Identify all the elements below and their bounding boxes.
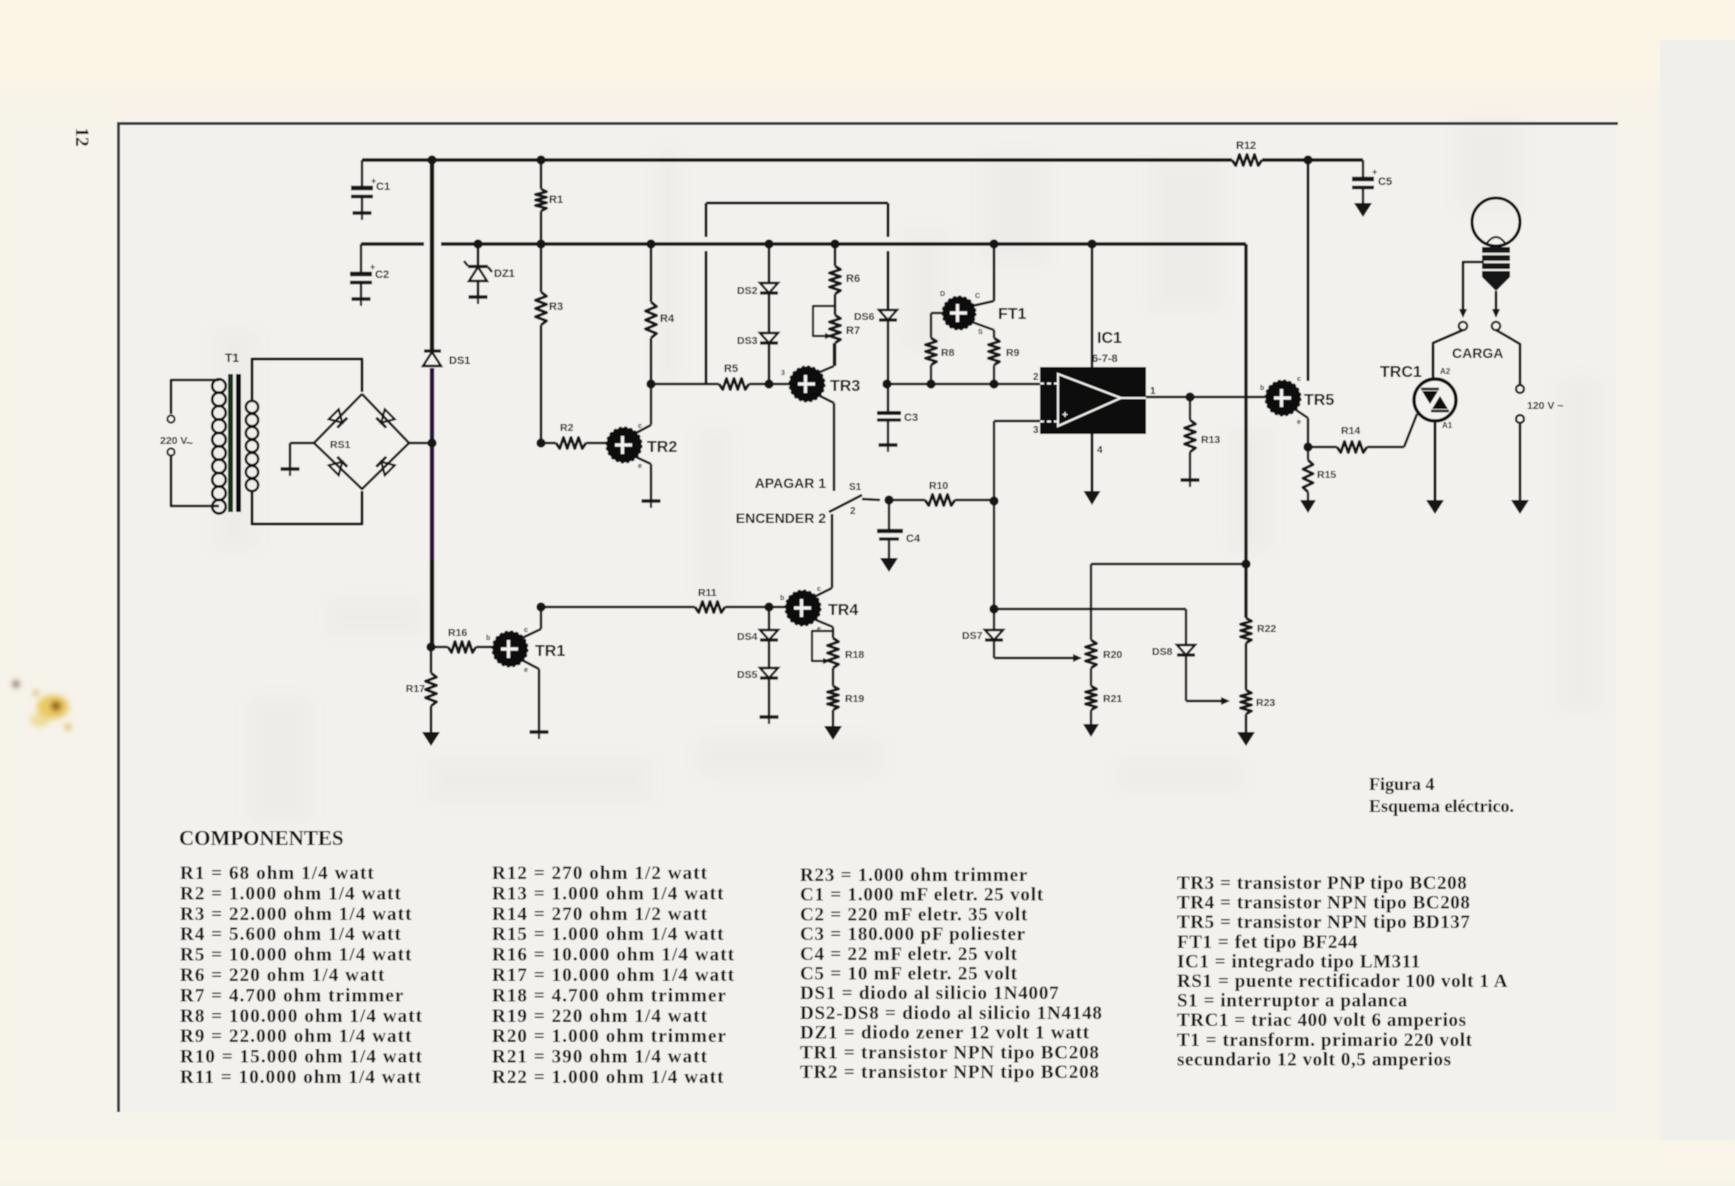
svg-text:3: 3 bbox=[781, 370, 785, 377]
node R3 TR2row bbox=[536, 438, 545, 447]
wire rail2 down bbox=[1244, 244, 1247, 618]
svg-text:R8 = 100.000 ohm 1/4 watt: R8 = 100.000 ohm 1/4 watt bbox=[180, 1006, 423, 1027]
svg-text:ENCENDER 2: ENCENDER 2 bbox=[736, 510, 826, 526]
resistor R17 bbox=[406, 647, 437, 732]
wire TR2 collector bbox=[636, 385, 651, 433]
wire IC1 vplus bbox=[1091, 244, 1094, 368]
svg-text:R15: R15 bbox=[1317, 469, 1336, 481]
wire TR4 collector bbox=[816, 514, 832, 596]
svg-text:R5 = 10.000 ohm 1/4 watt: R5 = 10.000 ohm 1/4 watt bbox=[180, 945, 413, 966]
wire bridge out bbox=[409, 442, 432, 445]
wire DS7 wiper bbox=[994, 654, 1082, 662]
svg-text:R11 = 10.000 ohm 1/4 watt: R11 = 10.000 ohm 1/4 watt bbox=[180, 1067, 422, 1088]
svg-text:R6: R6 bbox=[846, 273, 860, 285]
wire TRC1 mt1 bbox=[1434, 421, 1437, 500]
wire second rail bbox=[361, 242, 1246, 245]
svg-text:R1: R1 bbox=[549, 194, 563, 206]
wire TR2 emitter bbox=[636, 457, 651, 500]
transistor TR4 bbox=[780, 586, 858, 633]
svg-text:S: S bbox=[978, 329, 983, 336]
resistor R5 bbox=[719, 363, 749, 390]
svg-text:R11: R11 bbox=[698, 587, 717, 599]
diode DS7 bbox=[962, 609, 1003, 658]
node row DS3 bbox=[764, 379, 773, 388]
node top rail TR5 bbox=[1303, 155, 1312, 164]
wire row right bbox=[886, 383, 1040, 386]
svg-text:R14: R14 bbox=[1341, 425, 1360, 437]
svg-text:R9 = 22.000 ohm 1/4 watt: R9 = 22.000 ohm 1/4 watt bbox=[180, 1026, 413, 1047]
lamp CARGA bbox=[1452, 198, 1520, 361]
node row R9 bbox=[989, 379, 998, 388]
svg-text:R18 = 4.700 ohm trimmer: R18 = 4.700 ohm trimmer bbox=[492, 985, 727, 1006]
ground R21 bbox=[1083, 724, 1099, 737]
svg-text:TR2: TR2 bbox=[647, 439, 677, 456]
svg-text:c: c bbox=[817, 586, 821, 593]
node S1 pole bbox=[884, 495, 893, 504]
svg-text:R7: R7 bbox=[846, 325, 860, 337]
wire R7 to TR3 bbox=[834, 343, 837, 366]
transistor TR2 bbox=[607, 423, 678, 470]
svg-text:R4 = 5.600 ohm 1/4 watt: R4 = 5.600 ohm 1/4 watt bbox=[180, 924, 402, 945]
svg-text:DS7: DS7 bbox=[962, 630, 983, 642]
ground TR2 emitter bbox=[642, 501, 661, 508]
svg-text:S1 = interruptor a palanca: S1 = interruptor a palanca bbox=[1177, 991, 1408, 1012]
node rail2 FT1 bbox=[989, 239, 998, 248]
node rail2 DZ1 bbox=[473, 239, 482, 248]
svg-text:TRC1: TRC1 bbox=[1380, 364, 1422, 381]
svg-text:DS4: DS4 bbox=[737, 631, 758, 643]
svg-text:R2: R2 bbox=[560, 422, 574, 434]
svg-text:DS1: DS1 bbox=[449, 355, 470, 367]
ground bridge bbox=[281, 469, 300, 476]
svg-text:e: e bbox=[638, 463, 642, 470]
wire lamp to mains bbox=[1496, 330, 1564, 500]
trimmer R7 bbox=[813, 306, 860, 343]
svg-text:R22: R22 bbox=[1257, 623, 1276, 635]
svg-text:TR5 = transistor NPN tipo BD: TR5 = transistor NPN tipo BD137 bbox=[1177, 912, 1471, 933]
resistor R2 bbox=[541, 422, 607, 449]
node bus bridge bbox=[427, 438, 436, 447]
ground IC1 pin4 bbox=[1084, 434, 1101, 505]
transistor TR1 bbox=[486, 627, 565, 674]
svg-text:DS6: DS6 bbox=[854, 311, 875, 323]
wire TR1 emitter bbox=[522, 660, 539, 731]
svg-text:R15 = 1.000 ohm 1/4 watt: R15 = 1.000 ohm 1/4 watt bbox=[492, 924, 725, 945]
svg-text:R3 = 22.000 ohm 1/4 watt: R3 = 22.000 ohm 1/4 watt bbox=[180, 904, 413, 925]
wire T1 secondary top bbox=[252, 359, 362, 401]
transistor TR3 bbox=[781, 367, 860, 402]
wire TRC1 gate bbox=[1404, 414, 1417, 447]
node rail2 R4 bbox=[646, 239, 655, 248]
diode DS8 bbox=[1152, 645, 1195, 701]
diode DS3 bbox=[737, 333, 778, 384]
ground R23 bbox=[1237, 732, 1255, 746]
svg-text:FT1 = fet tipo BF244: FT1 = fet tipo BF244 bbox=[1177, 932, 1358, 953]
svg-text:CARGA: CARGA bbox=[1452, 345, 1503, 361]
svg-text:C3 = 180.000 pF poliester: C3 = 180.000 pF poliester bbox=[800, 924, 1026, 945]
svg-text:DS2: DS2 bbox=[737, 285, 758, 297]
svg-text:R5: R5 bbox=[724, 363, 738, 375]
label 220V bbox=[160, 435, 193, 450]
resistor R15 bbox=[1303, 447, 1336, 500]
diode DS1 bbox=[423, 351, 470, 367]
svg-text:IC1: IC1 bbox=[1097, 330, 1122, 347]
svg-text:C2: C2 bbox=[375, 269, 389, 281]
svg-text:A1: A1 bbox=[1442, 421, 1453, 430]
svg-text:R17: R17 bbox=[406, 683, 425, 695]
wire y564 bbox=[1091, 564, 1246, 640]
svg-text:TR2 = transistor NPN tipo BC: TR2 = transistor NPN tipo BC208 bbox=[800, 1062, 1100, 1083]
svg-text:APAGAR 1: APAGAR 1 bbox=[755, 475, 827, 491]
svg-text:R23 = 1.000 ohm trimmer: R23 = 1.000 ohm trimmer bbox=[800, 865, 1028, 886]
svg-text:R16: R16 bbox=[448, 627, 467, 639]
node rail2 IC1 bbox=[1087, 239, 1096, 248]
svg-text:R23: R23 bbox=[1256, 697, 1275, 709]
svg-text:R6 = 220 ohm 1/4 watt: R6 = 220 ohm 1/4 watt bbox=[180, 965, 385, 986]
node rail2 DS2 bbox=[764, 239, 773, 248]
wire bridge ground bbox=[290, 443, 314, 468]
wire lamp left bbox=[1459, 262, 1484, 330]
wire DS8 row bbox=[994, 609, 1186, 645]
svg-text:R13: R13 bbox=[1201, 434, 1220, 446]
svg-text:R20: R20 bbox=[1103, 649, 1122, 661]
svg-text:DZ1: DZ1 bbox=[494, 268, 515, 280]
svg-text:T1 = transform. primario 220: T1 = transform. primario 220 volt bbox=[1177, 1030, 1473, 1051]
decorative bleedthrough (unlabeled) bbox=[215, 120, 1600, 820]
svg-text:c: c bbox=[1297, 376, 1301, 383]
svg-text:R10: R10 bbox=[929, 480, 948, 492]
wire IC1 output bbox=[1146, 396, 1265, 398]
svg-text:R21 = 390 ohm 1/4 watt: R21 = 390 ohm 1/4 watt bbox=[492, 1047, 708, 1068]
wire IC1 pin3 bbox=[994, 421, 1040, 501]
resistor R12 bbox=[1232, 140, 1262, 166]
svg-text:2: 2 bbox=[1033, 372, 1039, 383]
resistor R4 bbox=[646, 244, 675, 384]
wire FT1 source bbox=[972, 322, 994, 338]
svg-text:C1: C1 bbox=[376, 181, 390, 193]
ground mains bbox=[1511, 500, 1529, 514]
trimmer R20 bbox=[1086, 640, 1123, 668]
capacitor C5 bbox=[1352, 160, 1392, 217]
wire FT1 drain bbox=[972, 244, 994, 306]
node rail2 R6 bbox=[830, 239, 839, 248]
svg-text:TR4: TR4 bbox=[828, 602, 858, 619]
capacitor C1 bbox=[351, 160, 390, 220]
resistor R10 bbox=[925, 480, 994, 506]
svg-text:COMPONENTES: COMPONENTES bbox=[179, 826, 344, 850]
svg-text:IC1 = integrado tipo LM311: IC1 = integrado tipo LM311 bbox=[1177, 951, 1421, 972]
resistor R14 bbox=[1308, 425, 1404, 453]
resistor R21 bbox=[1086, 668, 1123, 724]
svg-text:R12 = 270 ohm 1/2 watt: R12 = 270 ohm 1/2 watt bbox=[492, 863, 708, 884]
wire TR4 base row bbox=[541, 606, 695, 609]
svg-text:C4: C4 bbox=[906, 533, 921, 545]
component list bbox=[179, 826, 1508, 1088]
node TR5 emitter bbox=[1303, 442, 1312, 451]
switch S1 bbox=[736, 475, 880, 526]
svg-text:R2 = 1.000 ohm 1/4 watt: R2 = 1.000 ohm 1/4 watt bbox=[180, 883, 402, 904]
svg-text:R16 = 10.000 ohm 1/4 watt: R16 = 10.000 ohm 1/4 watt bbox=[492, 945, 735, 966]
op-amp IC1 bbox=[1033, 330, 1156, 456]
node TR4 DS4 bbox=[764, 602, 773, 611]
svg-text:b: b bbox=[1260, 385, 1264, 392]
transformer T1 bbox=[212, 351, 258, 513]
triac TRC1 bbox=[1380, 364, 1456, 430]
svg-text:C3: C3 bbox=[904, 412, 918, 424]
svg-text:~: ~ bbox=[186, 436, 193, 450]
svg-text:R10 = 15.000 ohm 1/4 watt: R10 = 15.000 ohm 1/4 watt bbox=[180, 1047, 423, 1068]
resistor R22 bbox=[1241, 618, 1277, 690]
wire bracket bbox=[706, 203, 888, 384]
ground R19 bbox=[824, 726, 842, 740]
wire R5 to TR3 bbox=[749, 383, 790, 386]
node top rail bus bbox=[427, 155, 436, 164]
svg-text:secundario 12 volt 0,5 amperio: secundario 12 volt 0,5 amperios bbox=[1177, 1049, 1452, 1070]
trimmer R18 bbox=[812, 631, 864, 668]
svg-text:R18: R18 bbox=[845, 649, 864, 661]
wire pin3 down bbox=[993, 501, 995, 609]
svg-text:C5 = 10 mF eletr. 25 volt: C5 = 10 mF eletr. 25 volt bbox=[800, 964, 1018, 985]
svg-text:3: 3 bbox=[1033, 425, 1039, 436]
svg-text:Figura 4: Figura 4 bbox=[1369, 774, 1435, 794]
resistor R1 bbox=[536, 160, 564, 243]
node row R8 bbox=[926, 379, 935, 388]
wire TR1 collector bbox=[522, 607, 541, 638]
capacitor C3 bbox=[877, 384, 918, 452]
node TR4row TR1 bbox=[536, 602, 545, 611]
page number 12 bbox=[71, 128, 92, 147]
caption bbox=[1369, 774, 1514, 816]
svg-text:TR5: TR5 bbox=[1304, 392, 1334, 409]
wire TR4 emitter bbox=[816, 620, 833, 638]
svg-text:C5: C5 bbox=[1378, 176, 1392, 188]
wire T1 secondary bottom bbox=[252, 491, 362, 524]
svg-text:R13 = 1.000 ohm 1/4 watt: R13 = 1.000 ohm 1/4 watt bbox=[492, 883, 725, 904]
node R10 pin3 bbox=[989, 496, 998, 505]
svg-text:TR3: TR3 bbox=[830, 378, 860, 395]
svg-text:DZ1 = diodo zener 12 volt 1: DZ1 = diodo zener 12 volt 1 watt bbox=[800, 1023, 1090, 1044]
resistor R3 bbox=[536, 244, 564, 442]
svg-text:R14 = 270 ohm 1/2 watt: R14 = 270 ohm 1/2 watt bbox=[492, 904, 708, 925]
wire lamp right bbox=[1492, 291, 1500, 330]
wire S1 to R10 bbox=[889, 499, 925, 501]
resistor R19 bbox=[828, 668, 865, 726]
node col1246 y564 bbox=[1241, 559, 1250, 568]
svg-text:C2 = 220 mF eletr. 35 volt: C2 = 220 mF eletr. 35 volt bbox=[800, 904, 1028, 925]
wire lamp to TRC1 bbox=[1433, 330, 1463, 379]
svg-text:TR1: TR1 bbox=[535, 643, 565, 660]
node top rail R1 bbox=[536, 155, 545, 164]
diode DS4 bbox=[737, 607, 778, 643]
svg-text:DS5: DS5 bbox=[737, 669, 758, 681]
ground TR5 emitter bbox=[1300, 500, 1316, 513]
wire FT1 gate bbox=[931, 313, 943, 338]
ground R17 bbox=[422, 732, 440, 746]
svg-text:T1: T1 bbox=[225, 351, 239, 365]
ground DS5 bbox=[760, 717, 779, 724]
svg-text:120 V ~: 120 V ~ bbox=[1527, 400, 1564, 412]
svg-text:R1 = 68 ohm 1/4 watt: R1 = 68 ohm 1/4 watt bbox=[180, 863, 375, 884]
svg-text:C4 = 22 mF eletr. 25 volt: C4 = 22 mF eletr. 25 volt bbox=[800, 944, 1018, 965]
svg-text:R4: R4 bbox=[660, 313, 675, 325]
svg-text:+: + bbox=[1062, 410, 1068, 421]
node DS7 DS8 bbox=[989, 604, 998, 613]
bridge rectifier RS1 bbox=[314, 394, 409, 489]
wire TR3 collector bbox=[820, 343, 834, 372]
capacitor C4 bbox=[877, 500, 921, 572]
svg-text:+: + bbox=[1372, 167, 1377, 177]
wire DS8 wiper bbox=[1186, 697, 1230, 705]
svg-text:RS1 = puente rectificador 10: RS1 = puente rectificador 100 volt 1 A bbox=[1177, 971, 1508, 992]
svg-text:FT1: FT1 bbox=[998, 306, 1027, 323]
svg-text:Esquema eléctrico.: Esquema eléctrico. bbox=[1369, 796, 1514, 816]
trimmer R23 bbox=[1241, 690, 1276, 732]
svg-text:1: 1 bbox=[1150, 386, 1156, 397]
diode DZ1 bbox=[464, 244, 515, 304]
border frame bbox=[117, 123, 1618, 1112]
transistor TR5 bbox=[1260, 376, 1334, 426]
svg-text:R21: R21 bbox=[1103, 693, 1122, 705]
svg-text:4: 4 bbox=[1097, 445, 1103, 456]
fet FT1 bbox=[940, 291, 1027, 336]
svg-text:c: c bbox=[524, 627, 528, 634]
node rail2 R1R3 bbox=[536, 239, 545, 248]
svg-text:R19: R19 bbox=[845, 693, 864, 705]
svg-text:DS3: DS3 bbox=[737, 335, 758, 347]
svg-text:A2: A2 bbox=[1440, 367, 1451, 376]
wire TRC1 mt2 bbox=[1432, 346, 1435, 379]
svg-text:D: D bbox=[940, 291, 945, 298]
svg-text:TR4 = transistor NPN tipo BC: TR4 = transistor NPN tipo BC208 bbox=[1177, 893, 1471, 914]
svg-text:b: b bbox=[486, 635, 490, 642]
svg-text:R9: R9 bbox=[1006, 347, 1020, 359]
wire TR3 base row bbox=[651, 383, 719, 386]
svg-text:DS1 = diodo al silicio 1N400: DS1 = diodo al silicio 1N4007 bbox=[800, 983, 1059, 1004]
ground TRC1 bbox=[1426, 500, 1444, 514]
svg-text:C: C bbox=[975, 293, 980, 300]
svg-text:DS8: DS8 bbox=[1152, 646, 1173, 658]
svg-text:6-7-8: 6-7-8 bbox=[1092, 353, 1118, 365]
wire main bus bbox=[430, 160, 434, 647]
stain bbox=[13, 681, 71, 730]
svg-text:220 V: 220 V bbox=[160, 435, 187, 447]
capacitor C2 bbox=[350, 244, 389, 306]
svg-text:RS1: RS1 bbox=[330, 439, 351, 451]
svg-text:R12: R12 bbox=[1236, 140, 1256, 152]
node row C3 bbox=[882, 379, 891, 388]
svg-text:TR1 = transistor NPN tipo BC: TR1 = transistor NPN tipo BC208 bbox=[800, 1042, 1100, 1063]
svg-text:S1: S1 bbox=[849, 482, 862, 493]
svg-text:R17 = 10.000 ohm 1/4 watt: R17 = 10.000 ohm 1/4 watt bbox=[492, 965, 735, 986]
svg-text:C1 = 1.000 mF eletr. 25 volt: C1 = 1.000 mF eletr. 25 volt bbox=[800, 885, 1044, 906]
svg-text:R3: R3 bbox=[549, 301, 563, 313]
node bus TR1row bbox=[426, 642, 435, 651]
resistor R11 bbox=[695, 587, 786, 613]
svg-text:R8: R8 bbox=[941, 347, 955, 359]
svg-text:TRC1 = triac 400 volt 6 ampe: TRC1 = triac 400 volt 6 amperios bbox=[1177, 1010, 1467, 1031]
svg-text:R7 = 4.700 ohm trimmer: R7 = 4.700 ohm trimmer bbox=[180, 985, 404, 1006]
diode DS5 bbox=[737, 640, 778, 716]
ground TR1 emitter bbox=[530, 732, 549, 739]
wire TR3 emitter bbox=[820, 396, 834, 491]
wire top rail bbox=[362, 158, 1363, 161]
svg-text:b: b bbox=[780, 595, 784, 602]
svg-text:e: e bbox=[524, 667, 528, 674]
svg-text:TR3 = transistor PNP tipo BC: TR3 = transistor PNP tipo BC208 bbox=[1177, 873, 1467, 894]
node row R4 bbox=[646, 379, 655, 388]
diode DS6 bbox=[854, 310, 897, 384]
svg-text:2: 2 bbox=[850, 506, 856, 517]
resistor R6 bbox=[830, 244, 861, 315]
svg-text:e: e bbox=[1297, 419, 1301, 426]
diode DS2 bbox=[737, 244, 778, 333]
wire TR5 collector bbox=[1307, 160, 1310, 381]
wire TR5 emitter bbox=[1296, 410, 1308, 447]
svg-text:R19 = 220 ohm 1/4 watt: R19 = 220 ohm 1/4 watt bbox=[492, 1006, 708, 1027]
resistor R16 bbox=[431, 627, 492, 653]
resistor R8 bbox=[926, 338, 955, 384]
svg-text:R20 = 1.000 ohm trimmer: R20 = 1.000 ohm trimmer bbox=[492, 1026, 727, 1047]
node output R13 bbox=[1185, 392, 1194, 401]
svg-text:R22 = 1.000 ohm 1/4 watt: R22 = 1.000 ohm 1/4 watt bbox=[492, 1067, 725, 1088]
resistor R13 bbox=[1181, 397, 1221, 487]
wire T1 primary bbox=[167, 380, 219, 506]
resistor R9 bbox=[989, 338, 1020, 384]
svg-text:DS2-DS8 = diodo al silicio 1: DS2-DS8 = diodo al silicio 1N4148 bbox=[800, 1003, 1103, 1024]
svg-text:12: 12 bbox=[71, 128, 92, 147]
